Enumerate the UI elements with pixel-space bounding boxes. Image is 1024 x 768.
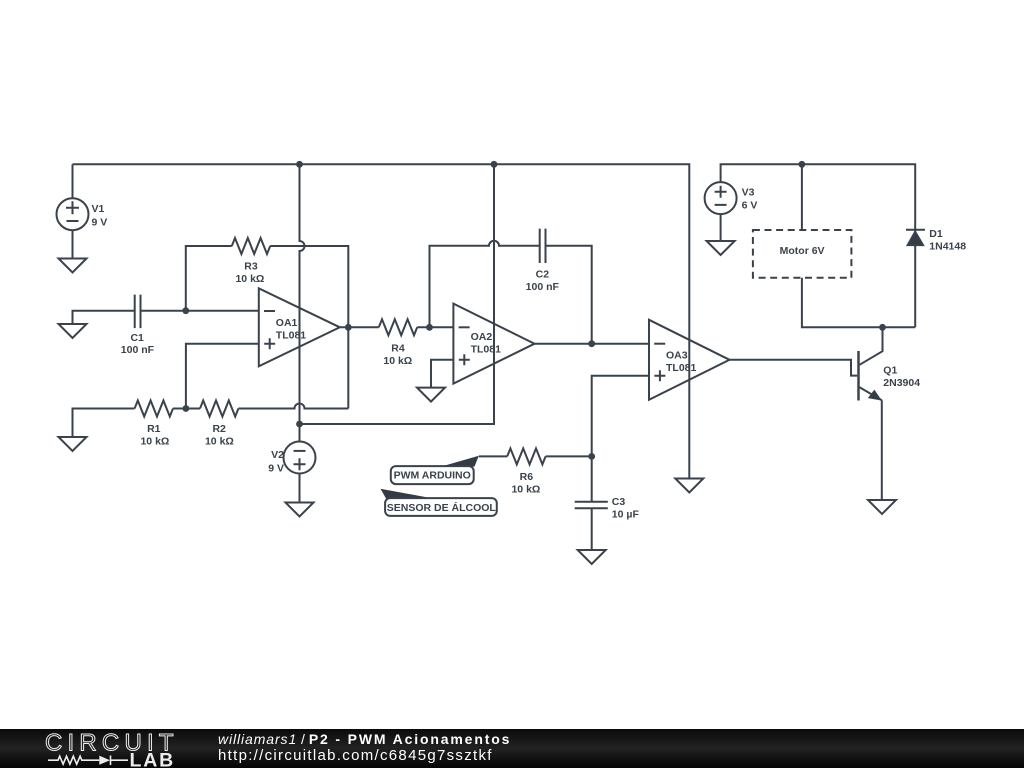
ground under V2: [286, 503, 314, 517]
svg-text:9 V: 9 V: [92, 216, 108, 228]
svg-text:10 kΩ: 10 kΩ: [140, 436, 169, 448]
voltage source V1: [57, 198, 89, 230]
wire PWM flag to R6: [479, 455, 507, 457]
svg-text:6 V: 6 V: [742, 199, 758, 211]
svg-text:SENSOR DE ÁLCOOL: SENSOR DE ÁLCOOL: [387, 501, 497, 514]
node junction V2 top: [296, 421, 303, 428]
svg-text:V1: V1: [92, 203, 105, 215]
wire motor bottom to collector rail: [802, 278, 915, 328]
voltage source V2: [284, 424, 316, 503]
wire OA1 output to R4: [340, 326, 379, 328]
motor M 6V dashed box: [753, 230, 852, 278]
wire R3 right to feedback bus down to R2 level: [270, 246, 348, 409]
wire node A up to R3 left: [186, 246, 232, 311]
node OA1 output / feedback junction: [345, 324, 352, 331]
svg-text:TL081: TL081: [471, 343, 502, 355]
resistor R1: [135, 401, 173, 417]
svg-text:PWM ARDUINO: PWM ARDUINO: [394, 470, 471, 482]
svg-text:C1: C1: [130, 332, 144, 344]
svg-text:TL081: TL081: [276, 329, 307, 341]
diode D1: [906, 230, 925, 246]
wire top rail with OA3 supply drop: [73, 164, 690, 478]
svg-text:D1: D1: [929, 228, 943, 240]
wire C2 right branch down to OA2 output: [546, 246, 592, 344]
node C : R6/C3/OA3+ junction: [588, 453, 595, 460]
svg-text:Motor 6V: Motor 6V: [780, 245, 825, 257]
ground under C3: [578, 550, 606, 564]
wire OA2 noninverting input to ground: [431, 360, 453, 388]
svg-text:OA3: OA3: [666, 349, 688, 361]
svg-text:10 kΩ: 10 kΩ: [511, 484, 540, 496]
capacitor C3: [575, 456, 608, 550]
ground under OA3: [675, 479, 703, 493]
svg-text:R4: R4: [391, 342, 405, 354]
svg-text:V3: V3: [742, 186, 755, 198]
node V3 rail / motor junction: [799, 161, 806, 168]
svg-text:R1: R1: [147, 423, 161, 435]
voltage source V3: [705, 182, 737, 241]
node OA2 inverting / C2 junction: [426, 324, 433, 331]
wire Q1 emitter to ground: [881, 400, 883, 500]
svg-text:9 V: 9 V: [268, 462, 284, 474]
svg-text:2N3904: 2N3904: [883, 377, 920, 389]
svg-text:10 kΩ: 10 kΩ: [235, 273, 264, 285]
node junction top rail x=299.5: [296, 161, 303, 168]
svg-text:10 kΩ: 10 kΩ: [205, 436, 234, 448]
svg-text:LAB: LAB: [130, 750, 175, 768]
svg-text:10 µF: 10 µF: [612, 509, 640, 521]
svg-text:OA1: OA1: [276, 317, 298, 329]
node A : C1/R3/OA1- junction: [182, 307, 189, 314]
ground under Q1 emitter: [868, 500, 896, 514]
ground at R1 left: [59, 437, 87, 451]
wire Q1 collector: [860, 327, 883, 365]
node OA2 output / C2 junction: [588, 340, 595, 347]
svg-text:R3: R3: [244, 261, 258, 273]
svg-text:R6: R6: [520, 471, 534, 483]
svg-text:C2: C2: [536, 269, 550, 281]
op-amp OA2: [453, 304, 534, 384]
svg-text:1N4148: 1N4148: [929, 241, 966, 253]
wire R1 to node B: [173, 408, 200, 410]
wire R4 to OA2 inverting input: [417, 326, 453, 328]
ground under V1: [59, 230, 87, 272]
op-amp OA3: [649, 320, 730, 400]
wire OA2 output to OA3 inverting input: [535, 343, 650, 345]
wire vertical bus x=299.5 with hop over R3 wire: [300, 164, 305, 424]
wire R6 to node C: [546, 455, 592, 457]
svg-text:R2: R2: [212, 423, 226, 435]
resistor R6: [507, 448, 545, 464]
svg-text:10 kΩ: 10 kΩ: [383, 355, 412, 367]
wire C1 to OA1 inverting input: [141, 310, 259, 312]
svg-text:Q1: Q1: [883, 364, 897, 376]
wire node B up to OA1 noninverting input: [186, 344, 259, 409]
flag PWM ARDUINO: [391, 456, 479, 484]
resistor R3: [232, 238, 270, 254]
wire rail to motor top: [801, 164, 803, 230]
wire vertical bus x=494 down and left to V2 node: [300, 164, 495, 424]
svg-text:V2: V2: [271, 449, 284, 461]
wire OA3 output to Q1 base: [730, 360, 858, 376]
node B : R1/R2/OA1+ junction: [183, 405, 190, 412]
capacitor C1: [135, 295, 141, 329]
op-amp OA1: [259, 288, 340, 366]
svg-text:TL081: TL081: [666, 362, 697, 374]
wire C1 left lead to ground corner: [73, 311, 135, 324]
node junction top rail x=494: [491, 161, 498, 168]
resistor R4: [379, 319, 417, 335]
wire OA3 noninverting input down to R6/C3 node: [592, 376, 649, 457]
wire V3 rail and D1 branch: [721, 164, 916, 327]
wire R2 to feedback bus with hop over x=299.5: [238, 404, 348, 409]
svg-text:100 nF: 100 nF: [121, 344, 155, 356]
flag SENSOR DE ALCOOL: [381, 489, 497, 516]
wire C2 left branch with hop over x=494: [430, 241, 540, 327]
footer url text: [218, 747, 493, 764]
svg-text:C3: C3: [612, 496, 626, 508]
ground under V3: [707, 241, 735, 255]
capacitor C2: [540, 229, 546, 263]
wire R1 left to ground corner: [73, 409, 135, 438]
ground at OA2 noninverting input: [417, 388, 445, 402]
svg-text:100 nF: 100 nF: [526, 281, 560, 293]
ground at C1 left: [59, 324, 87, 338]
footer title text: [218, 731, 511, 747]
wire V1 top stub: [72, 164, 74, 198]
resistor R2: [200, 401, 238, 417]
svg-text:OA2: OA2: [471, 331, 493, 343]
footer CircuitLab logo: [0, 729, 200, 768]
node collector rail / Q1 junction: [879, 324, 886, 331]
footer bar: [0, 729, 1024, 768]
transistor Q1: [859, 351, 882, 401]
